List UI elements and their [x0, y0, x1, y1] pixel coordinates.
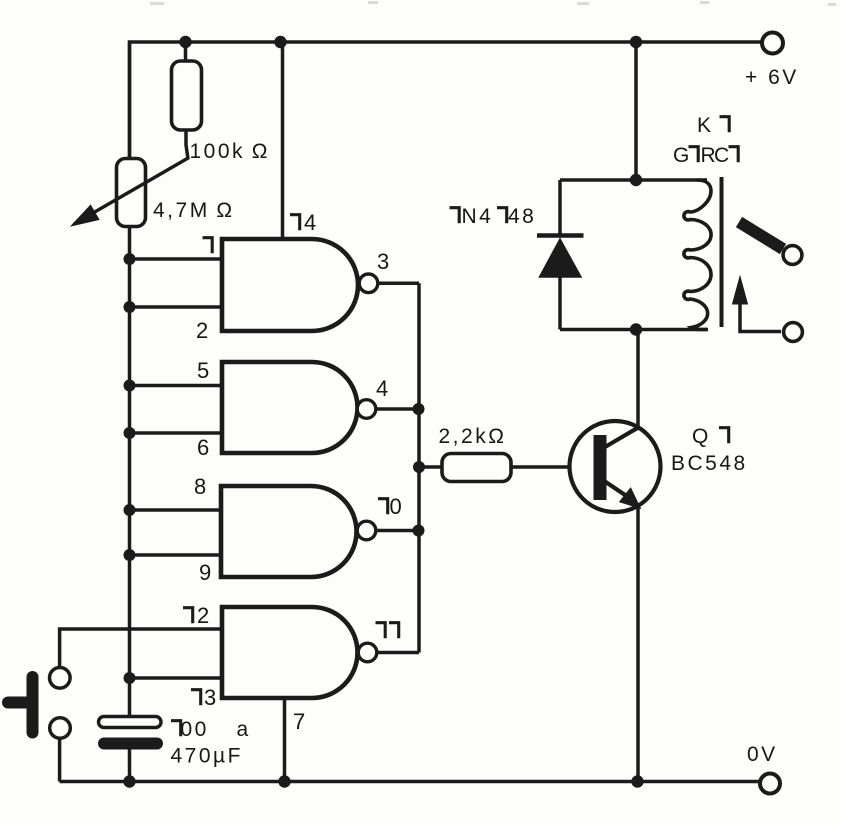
resistor R2 2,2k body [442, 454, 511, 482]
svg-text:0V: 0V [747, 743, 778, 766]
relay contact terminal common [784, 323, 803, 342]
potentiometer P1 4,7M body [117, 159, 146, 227]
relay armature contact bar [739, 222, 783, 249]
relay actuation arrow [733, 277, 782, 332]
relay contact terminal NO [783, 246, 802, 265]
wire pin1 [130, 257, 223, 261]
wire base resistor left lead [419, 465, 442, 469]
wire pin9 [130, 553, 223, 557]
label pin 13 [191, 685, 216, 710]
svg-text:+ 6V: + 6V [745, 66, 799, 89]
svg-text:48: 48 [508, 205, 536, 228]
svg-text:K: K [697, 114, 714, 137]
wire relay branch upper [634, 42, 638, 180]
label Q1 [692, 425, 729, 448]
wire top +6V rail [130, 42, 763, 160]
wire gate3 output [375, 529, 419, 533]
svg-text:0: 0 [390, 494, 402, 519]
gate U1b body [222, 362, 358, 453]
label pin 10 [378, 494, 402, 519]
node dot pin13 [124, 672, 136, 684]
node dot rail/bus [123, 775, 135, 787]
wire pin5 [130, 384, 223, 388]
label K1 [697, 114, 729, 137]
svg-text:6: 6 [197, 435, 209, 460]
node dot output pin4 [413, 403, 425, 415]
wire gate1 output [377, 282, 419, 286]
svg-text:2,2kΩ: 2,2kΩ [439, 425, 507, 448]
gate U1d bubble [358, 643, 377, 662]
svg-text:3: 3 [377, 249, 389, 274]
transistor Q1 collector wire [636, 330, 640, 428]
resistor R1 100k body [172, 61, 202, 130]
node dot pin1 [124, 253, 136, 265]
pushbutton S1 [8, 668, 70, 739]
gate U1d body [222, 607, 358, 698]
svg-text:a: a [237, 718, 251, 741]
gate U1a bubble [359, 274, 378, 293]
node dot output pin10 [413, 525, 425, 537]
svg-text:7: 7 [293, 709, 305, 734]
node dot pin9 [124, 549, 136, 561]
wire 100k bottom lead [186, 130, 188, 159]
wire capacitor bottom lead [128, 750, 132, 782]
wire 100k top lead [184, 42, 188, 64]
label 100 a [171, 718, 209, 741]
label 1N4148 [450, 205, 537, 228]
wire pin8 [130, 508, 223, 512]
transistor Q1 emitter wire [636, 506, 640, 782]
scan speckles top edge [150, 1, 836, 6]
terminal +6V [762, 33, 783, 54]
svg-text:N4: N4 [462, 205, 494, 228]
wire diode-coil bottom [560, 328, 707, 332]
svg-text:00: 00 [181, 718, 209, 741]
label G1RC1 [673, 144, 738, 167]
node junction top rail / pin14 [274, 36, 286, 48]
wire diode-coil top [560, 178, 707, 182]
node junction top rail / 100k [179, 36, 191, 48]
label pin 1 [203, 238, 213, 254]
wire pin14 [281, 42, 285, 239]
svg-text:2: 2 [196, 318, 208, 343]
node dot pin8 [124, 504, 136, 516]
wire pin7 [283, 698, 287, 782]
terminal 0V [760, 774, 780, 794]
gate U1a body [222, 239, 358, 331]
wire output bus [417, 283, 421, 652]
node dot pin6 [124, 427, 136, 439]
node dot coil top [630, 174, 642, 186]
svg-text:8: 8 [194, 474, 206, 499]
diode D1 1N4148 [537, 180, 584, 330]
node dot coil bottom [630, 323, 642, 335]
label pin 11 [376, 623, 399, 639]
svg-text:3: 3 [204, 685, 216, 710]
capacitor C1 top plate [99, 717, 162, 728]
svg-text:9: 9 [199, 560, 211, 585]
relay K1 core [720, 177, 724, 327]
wire base resistor right lead [511, 465, 595, 469]
wire pin12 from pushbutton [60, 629, 222, 668]
node dot output resistor [413, 461, 425, 473]
capacitor C1 bottom plate [98, 738, 163, 750]
transistor Q1 BC548 [570, 421, 661, 512]
svg-text:BC548: BC548 [671, 452, 748, 475]
gate U1c bubble [357, 521, 376, 540]
gate U1c body [221, 486, 357, 577]
wire left bus upper [128, 42, 132, 716]
node junction top rail / relay branch [630, 36, 642, 48]
label pin 14 [290, 210, 316, 235]
svg-text:4,7M Ω: 4,7M Ω [153, 199, 235, 222]
wire pin6 [130, 431, 223, 435]
gate U1b bubble [357, 400, 376, 419]
svg-text:4: 4 [376, 376, 388, 401]
svg-text:4: 4 [304, 210, 316, 235]
wire gate2 output [375, 407, 419, 411]
wire pin2 [130, 305, 223, 309]
svg-text:5: 5 [197, 358, 209, 383]
node dot pin2 [124, 301, 136, 313]
label pin 12 [183, 603, 209, 628]
wire pushbutton bottom to 0V rail [58, 738, 62, 781]
wire gate4 output [376, 651, 419, 655]
svg-text:2: 2 [197, 603, 209, 628]
svg-text:470µF: 470µF [171, 745, 243, 768]
wire pin13 [130, 676, 223, 680]
wire 0V rail [60, 780, 761, 784]
node dot rail/emitter [631, 775, 643, 787]
relay K1 coil [684, 180, 711, 330]
svg-text:Q: Q [692, 425, 711, 448]
node dot pin5 [124, 380, 136, 392]
potentiometer P1 wiper arrow [72, 158, 189, 226]
node dot rail/pin7 [278, 775, 290, 787]
svg-text:100k Ω: 100k Ω [190, 140, 270, 163]
